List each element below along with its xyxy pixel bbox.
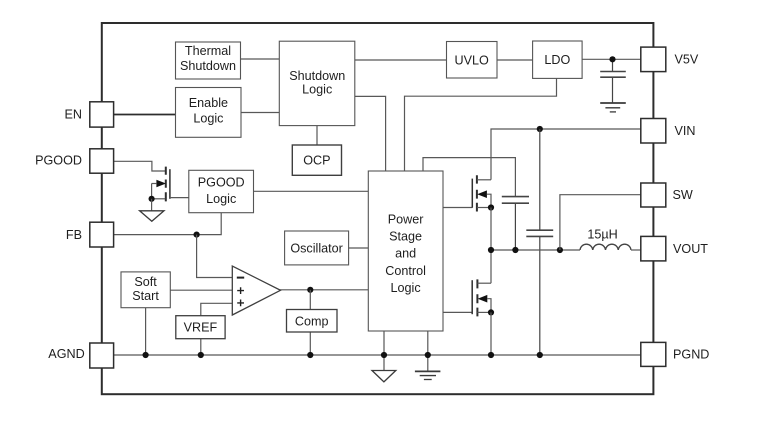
wire gate drive to low-side FET (443, 311, 472, 313)
wire LDO to V5V pin (582, 58, 641, 60)
block Shutdown Logic (279, 41, 355, 125)
wire source to signal ground (151, 199, 153, 211)
wire SW node vertical (490, 208, 492, 284)
pin SW (641, 183, 666, 207)
node Comp / rail (307, 352, 313, 358)
wire Soft Start bottom to AGND rail (145, 308, 147, 355)
svg-text:Shutdown: Shutdown (180, 59, 236, 73)
svg-text:Thermal: Thermal (185, 44, 231, 58)
pin EN (90, 102, 114, 127)
inductor L1 15uH (580, 244, 631, 250)
wire VIN pin to high-side FET drain (491, 129, 641, 180)
wire FB to error amp inverting input (197, 235, 233, 278)
wire UVLO to LDO (497, 59, 533, 61)
svg-text:15µH: 15µH (587, 228, 617, 242)
svg-text:Enable: Enable (189, 96, 228, 110)
block OCP (292, 145, 341, 175)
transistor Q2 low-side NFET (472, 279, 491, 316)
block VREF (176, 316, 225, 339)
svg-text:Stage: Stage (389, 230, 422, 244)
svg-text:PGOOD: PGOOD (198, 175, 245, 189)
wire Soft Start to error amp + input (170, 289, 232, 291)
node VREF / rail (198, 352, 204, 358)
wire Comp top (309, 290, 311, 310)
node rail junction at x384 (381, 352, 387, 358)
transistor Q3 PGOOD open-drain FET (152, 167, 189, 202)
wire AGND to PGND ground rail (114, 354, 642, 356)
node high-side source junction (488, 204, 494, 210)
block Comp (287, 310, 338, 333)
pin PGND (641, 342, 666, 366)
node FB junction (194, 232, 200, 238)
pin VOUT (641, 236, 666, 261)
node low-side source junction (488, 309, 494, 315)
node SW rail junctions (488, 247, 494, 253)
wire Thermal Shutdown to Shutdown Logic (241, 58, 280, 60)
svg-text:UVLO: UVLO (455, 54, 489, 68)
svg-text:Power: Power (388, 212, 424, 226)
ground (signal triangle) under Power Stage (372, 371, 396, 382)
capacitor on V5V rail (600, 59, 626, 102)
svg-text:VIN: VIN (675, 124, 696, 138)
svg-text:Oscillator: Oscillator (290, 241, 342, 255)
transistor Q1 high-side NFET (472, 175, 491, 211)
svg-text:Soft: Soft (134, 275, 157, 289)
wire Comp bottom to AGND rail (309, 332, 311, 355)
svg-text:VOUT: VOUT (673, 242, 708, 256)
node LDO output junction dot (609, 56, 615, 62)
node source / PGND rail (488, 352, 494, 358)
svg-text:Shutdown: Shutdown (289, 69, 345, 83)
pin FB (90, 222, 114, 247)
block UVLO (447, 42, 498, 79)
node soft start / rail (143, 352, 149, 358)
svg-text:VREF: VREF (184, 321, 218, 335)
capacitor C1 (bootstrap) (502, 197, 529, 250)
node PGOOD FET source junction (149, 196, 155, 202)
block Thermal Shutdown (176, 42, 241, 79)
svg-text:PGND: PGND (673, 348, 709, 362)
op-amp U1 error amplifier (232, 266, 280, 315)
svg-text:EN: EN (65, 108, 83, 122)
svg-text:OCP: OCP (303, 153, 330, 167)
svg-text:Logic: Logic (206, 192, 236, 206)
wire Power Stage bottom to signal ground (383, 331, 385, 370)
wire error amp output to Power Stage (278, 289, 368, 291)
wire VREF bottom to AGND rail (200, 339, 202, 355)
wire LDO bottom to Power Stage top (405, 78, 557, 171)
svg-text:LDO: LDO (544, 53, 570, 67)
block Soft Start (121, 272, 170, 308)
bootstrap wire Power Stage top to capacitor C1 (423, 158, 515, 196)
node input cap / PGND rail (537, 352, 543, 358)
svg-text:Control: Control (385, 264, 426, 278)
block Power Stage and Control Logic (368, 171, 443, 331)
wire Shutdown Logic right down to Power Stage top (355, 96, 386, 171)
wire FB pin to PGOOD Logic bottom (114, 213, 222, 235)
svg-text:SW: SW (673, 188, 693, 202)
wire Shutdown Logic bottom to OCP (316, 126, 318, 145)
block LDO (533, 41, 583, 78)
wire PGOOD pin to PFET drain (114, 161, 166, 171)
wire gate drive to high-side FET (443, 207, 472, 209)
svg-text:FB: FB (66, 228, 82, 242)
wire Enable Logic to Shutdown Logic (241, 112, 280, 114)
wire Oscillator to Power Stage (349, 247, 369, 249)
svg-text:Start: Start (132, 289, 159, 303)
wire PGOOD Logic to Power Stage (254, 190, 369, 192)
pin VIN (641, 119, 666, 144)
svg-text:V5V: V5V (675, 53, 699, 67)
earth ground below V5V capacitor (600, 103, 626, 112)
block PGOOD Logic (189, 170, 254, 212)
wire SW pin down to SW rail (560, 195, 641, 250)
svg-text:AGND: AGND (48, 347, 84, 361)
wire low-side source to PGND rail (490, 312, 492, 355)
node rail junction at x428 (425, 352, 431, 358)
capacitor C2 (input cap VIN to PGND) (526, 129, 553, 355)
wire inductor to VOUT pin (631, 249, 641, 251)
block Enable Logic (176, 88, 242, 138)
wire EN pin to Enable Logic (114, 114, 176, 116)
wire Shutdown Logic to UVLO (355, 59, 447, 61)
pin PGOOD (90, 149, 114, 173)
pin V5V (641, 47, 666, 72)
wire VREF to error amp + input (201, 303, 233, 315)
svg-text:Logic: Logic (193, 112, 223, 126)
node error amp output junction (307, 287, 313, 293)
outer IC boundary box (102, 23, 654, 394)
wire SW node rail to inductor (491, 249, 580, 251)
svg-text:and: and (395, 247, 416, 261)
wire Power Stage bottom to earth ground (427, 331, 429, 371)
svg-text:PGOOD: PGOOD (35, 154, 82, 168)
block Oscillator (285, 231, 349, 265)
node VIN / input cap junction (537, 126, 543, 132)
svg-text:Logic: Logic (302, 83, 332, 97)
svg-text:Comp: Comp (295, 314, 329, 328)
svg-text:Logic: Logic (391, 281, 421, 295)
pin AGND (90, 343, 114, 368)
ground (signal triangle) under PGOOD FET (140, 211, 164, 222)
ground (earth) under Power Stage (415, 371, 441, 379)
